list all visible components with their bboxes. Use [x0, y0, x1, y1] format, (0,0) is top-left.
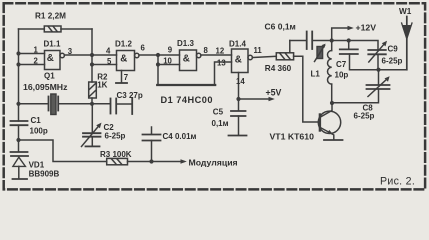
op-amp U3: NAND gate D1.3: [180, 50, 201, 71]
wire: pin11 out to R4: [252, 56, 276, 57]
svg-text:13: 13: [217, 59, 226, 68]
wire: C2 bottom stub: [91, 137, 93, 146]
svg-text:&: &: [120, 54, 127, 65]
wire: C3 right to end bar: [116, 103, 131, 105]
wire: R1 loop top left segment: [19, 28, 45, 30]
node: junction main line / middle bus: [90, 53, 94, 57]
wire: W1 down to tank junction: [379, 69, 407, 71]
wire: +12V riser: [332, 28, 351, 41]
resistor R3: [107, 158, 128, 164]
capacitor C8 (trimmer): [332, 70, 390, 103]
transistor Q2: VT1: [318, 103, 340, 139]
ground: VD1 bar: [13, 178, 28, 180]
svg-text:4: 4: [106, 47, 111, 56]
svg-text:D1.4: D1.4: [229, 39, 246, 48]
svg-text:+5V: +5V: [266, 87, 282, 97]
wire: R1 loop right vertical down to output node: [91, 29, 93, 55]
svg-text:+12V: +12V: [356, 23, 377, 33]
capacitor C3: [111, 99, 117, 114]
inductor L1: [327, 41, 331, 104]
svg-text:0,1м: 0,1м: [212, 119, 229, 128]
node: junction pin5 / middle bus: [90, 62, 94, 66]
svg-text:R4 360: R4 360: [265, 64, 292, 73]
border frame: [4, 3, 425, 189]
capacitor C2 (trimmer): [82, 123, 102, 147]
node: junction C7 top: [347, 38, 351, 42]
wire: D1.2 out to D1.3 inputs: [139, 54, 180, 56]
antenna W1: [402, 17, 412, 70]
svg-text:&: &: [235, 54, 242, 65]
resistor R4: [276, 53, 293, 60]
op-amp U2: NAND gate D1.2: [117, 51, 140, 71]
wire: C6 left: [290, 40, 307, 42]
svg-text:R3 100K: R3 100K: [100, 150, 132, 159]
capacitor C6: [307, 32, 313, 50]
capacitor C5: [231, 111, 246, 135]
ground: pin7 bar: [116, 82, 127, 84]
wire: +5V arrowhead: [269, 97, 275, 101]
svg-text:C7: C7: [336, 60, 347, 69]
svg-text:14: 14: [236, 77, 245, 86]
svg-text:D1.2: D1.2: [115, 39, 132, 48]
svg-text:11: 11: [254, 46, 263, 55]
svg-text:2: 2: [34, 57, 39, 66]
svg-text:VT1 KT610: VT1 KT610: [270, 131, 315, 141]
capacitor C7: [340, 41, 379, 70]
svg-text:5: 5: [107, 57, 112, 66]
capacitor C1: [11, 121, 28, 125]
svg-text:VD1: VD1: [29, 161, 45, 170]
resistor R1: [44, 26, 61, 32]
svg-text:&: &: [47, 53, 54, 64]
wire: middle bus down to C2: [91, 104, 93, 133]
svg-text:R1 2,2M: R1 2,2M: [35, 12, 66, 21]
svg-text:C9: C9: [388, 45, 399, 54]
ground: C2 bar: [86, 145, 100, 147]
svg-text:Q1: Q1: [44, 72, 55, 81]
op-amp U1: NAND gate D1.1: [45, 51, 65, 70]
node: junction L1 top: [330, 38, 334, 42]
wire: R3 to modulation arrow: [128, 161, 184, 163]
svg-text:C3 27p: C3 27p: [117, 91, 143, 100]
svg-text:L1: L1: [311, 70, 321, 79]
wire: bus down and bottom loop to pin13: [157, 55, 159, 85]
wire: C1 bottom to VD1: [18, 125, 20, 151]
wire: pin14 stub down: [238, 73, 240, 111]
svg-text:W1: W1: [399, 7, 412, 16]
wire: pin5 input from middle bus: [92, 64, 117, 66]
diode VD1 varicap: [11, 152, 29, 178]
svg-text:C1: C1: [31, 116, 42, 125]
L1 adjustable core: [315, 44, 326, 62]
op-amp U4: NAND gate D1.4: [232, 49, 253, 73]
node: junction VD1 / R3 branch: [16, 138, 20, 142]
wire: left bus vertical (R1 loop left + C1/VD1 branch): [18, 29, 20, 121]
svg-text:BB909B: BB909B: [29, 170, 60, 179]
node: junction +5V / C5: [236, 97, 240, 101]
svg-text:D1.1: D1.1: [44, 40, 61, 49]
svg-text:7: 7: [124, 73, 128, 82]
svg-text:16,095MHz: 16,095MHz: [23, 82, 68, 92]
node: junction dot pin1/left bus: [16, 51, 20, 55]
node: junction W1/C9/C8: [376, 68, 380, 72]
ground: VT1 emitter bar: [324, 139, 343, 141]
wire: R2 bottom to crystal line: [91, 98, 93, 104]
svg-text:6-25p: 6-25p: [105, 132, 126, 141]
svg-text:8: 8: [204, 46, 209, 55]
node: junction C4 / modulation line: [149, 159, 153, 163]
svg-text:6-25p: 6-25p: [382, 56, 403, 65]
svg-text:12: 12: [216, 47, 225, 56]
wire: pin2 input from left bus: [19, 64, 45, 66]
wire: R1 loop top right segment: [61, 28, 92, 30]
node: junction crystal line / middle bus: [90, 102, 94, 106]
svg-text:Рис. 2.: Рис. 2.: [380, 175, 415, 187]
crystal Q1: [49, 94, 59, 115]
wire: pin1 input from left bus: [19, 53, 45, 55]
svg-text:C5: C5: [213, 107, 224, 116]
wire: +5V line: [239, 98, 272, 100]
wire: modulation branch from left bus: [19, 140, 107, 162]
wire: C6 right to tank top rail: [312, 41, 378, 51]
svg-text:6-25p: 6-25p: [354, 111, 375, 120]
wire: crystal line from left bus to crystal: [19, 103, 49, 105]
wire: R4 right, corner down to base: [294, 56, 319, 122]
node: junction dot pin2/left bus: [16, 62, 20, 66]
node: junction crystal / left bus: [16, 102, 20, 106]
wire: D1.3 out to D1.4 pin12: [201, 54, 232, 56]
wire: D1.2 pin7 ground stub: [121, 71, 123, 83]
node: junction pin10 bus: [156, 62, 160, 66]
capacitor C4: [143, 127, 161, 162]
svg-text:C4 0.01м: C4 0.01м: [163, 132, 197, 141]
capacitor C9 (trimmer): [368, 41, 387, 70]
wire: C6 riser from R4 node: [289, 41, 291, 53]
resistor R2 (vertical): [89, 82, 97, 98]
svg-text:&: &: [183, 54, 190, 65]
svg-text:6: 6: [141, 44, 146, 53]
svg-text:10p: 10p: [335, 71, 349, 80]
svg-text:Модуляция: Модуляция: [189, 158, 238, 168]
svg-text:100p: 100p: [30, 127, 48, 136]
wire: D1.1 out to D1.2 in (main line): [64, 54, 116, 56]
node: junction pin9 bus: [156, 53, 160, 57]
ground: C5 bar: [229, 135, 247, 137]
svg-text:C6 0,1м: C6 0,1м: [265, 22, 296, 32]
svg-text:10: 10: [163, 56, 172, 65]
wire: modulation arrowhead: [181, 159, 187, 163]
wire: pin10 from bus: [158, 64, 180, 66]
svg-text:1: 1: [34, 46, 39, 55]
svg-text:9: 9: [168, 45, 173, 54]
wire: middle bus down to R2: [91, 55, 93, 82]
svg-text:D1.3: D1.3: [177, 39, 194, 48]
svg-text:1K: 1K: [97, 80, 107, 89]
wire: crystal to middle bus and C3: [58, 103, 110, 105]
node: junction collector/L1/C8: [330, 101, 334, 105]
svg-text:D1 74HC00: D1 74HC00: [161, 95, 214, 105]
ground: C3 end bar: [131, 99, 133, 115]
wire: +12V arrowhead: [348, 26, 354, 30]
